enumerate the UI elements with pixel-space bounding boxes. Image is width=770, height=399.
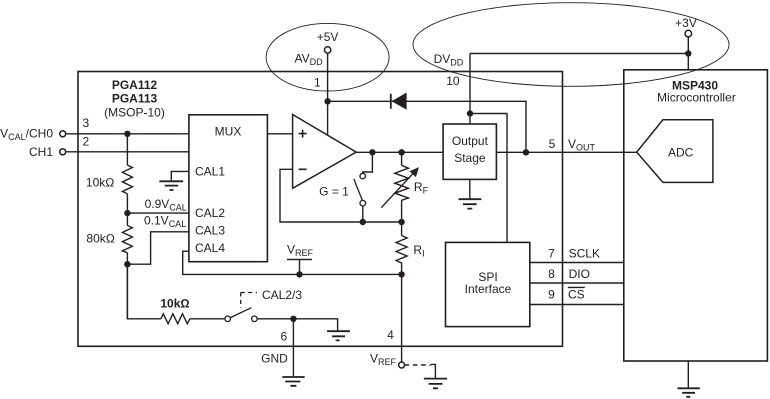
PGA112/PGA113 device boundary box bbox=[78, 72, 563, 347]
svg-text:10kΩ: 10kΩ bbox=[160, 297, 189, 311]
VOUT net label bbox=[568, 137, 596, 153]
svg-text:80kΩ: 80kΩ bbox=[86, 232, 115, 246]
svg-text:2: 2 bbox=[82, 135, 89, 149]
switch G=1 (top contact) bbox=[360, 173, 366, 179]
svg-text:Microcontroller: Microcontroller bbox=[657, 90, 736, 104]
pin 6 label bbox=[280, 329, 287, 343]
MSP430 title bbox=[672, 79, 718, 93]
GND pin label bbox=[261, 352, 288, 366]
SCLK net label bbox=[569, 246, 600, 260]
resistor 10k (top divider) bbox=[122, 165, 132, 194]
CS net label with overline bbox=[568, 287, 585, 301]
CH1 input terminal bbox=[29, 145, 66, 159]
PGA113 title bbox=[112, 91, 158, 105]
svg-text:PGA112: PGA112 bbox=[112, 78, 158, 92]
svg-text:MUX: MUX bbox=[215, 125, 242, 139]
wire pin2 CH1 to MUX bbox=[66, 151, 189, 153]
node CAL3 junction dot bbox=[124, 261, 130, 267]
diode D1 (cathode bar) bbox=[390, 94, 392, 109]
node VREF stub junction dot bbox=[296, 271, 302, 277]
wire op-amp - input feedback loop bbox=[280, 169, 402, 222]
svg-text:Stage: Stage bbox=[454, 151, 486, 165]
MSP430 boundary box bbox=[624, 70, 768, 361]
Output Stage block bbox=[443, 124, 496, 179]
wire VREF down to pin 4 bbox=[401, 274, 403, 362]
CAL2 pin label bbox=[195, 206, 225, 220]
svg-text:VREF: VREF bbox=[370, 352, 397, 368]
wire +3V vertical into MSP430 bbox=[687, 37, 689, 70]
svg-text:G = 1: G = 1 bbox=[319, 184, 349, 198]
node VOUT junction dot bbox=[523, 149, 529, 155]
svg-text:Output: Output bbox=[452, 134, 489, 148]
wire MUX output to op-amp + input bbox=[267, 133, 292, 135]
svg-text:Interface: Interface bbox=[465, 282, 512, 296]
wire op-amp output bbox=[356, 151, 443, 153]
VCAL/CH0 input terminal bbox=[0, 127, 66, 143]
node output/RF junction dot bbox=[398, 149, 404, 155]
+3V supply terminal bbox=[675, 16, 697, 37]
svg-text:GND: GND bbox=[261, 352, 288, 366]
pin 10 label bbox=[446, 74, 460, 88]
CAL1 pin label bbox=[195, 165, 225, 179]
PGA112 title bbox=[112, 78, 158, 92]
svg-text:9: 9 bbox=[548, 287, 555, 301]
VREF pin terminal bbox=[370, 352, 405, 369]
ADC block (pentagon) bbox=[637, 120, 713, 183]
wire CAL4 to VREF line bbox=[183, 251, 402, 274]
DVDD net label bbox=[434, 52, 464, 67]
svg-text:CAL1: CAL1 bbox=[195, 165, 225, 179]
ground (Output Stage) bbox=[459, 199, 482, 208]
svg-text:SCLK: SCLK bbox=[569, 246, 600, 260]
svg-text:3: 3 bbox=[82, 116, 89, 130]
svg-text:CAL4: CAL4 bbox=[195, 241, 225, 255]
node RF/feedback junction dot bbox=[398, 219, 404, 225]
ground (GND pin) bbox=[282, 377, 304, 386]
svg-text:0.9VCAL: 0.9VCAL bbox=[145, 197, 187, 213]
svg-text:CS: CS bbox=[568, 287, 585, 301]
wire dashed VREF to ground bbox=[405, 364, 436, 378]
10k ohm value label bbox=[86, 176, 115, 190]
pin 9 label bbox=[548, 287, 555, 301]
switch CAL2/3 (blade) bbox=[230, 308, 251, 318]
pin 7 label bbox=[548, 246, 555, 260]
node output/switch junction dot bbox=[369, 149, 375, 155]
wire switch bottom to feedback line bbox=[362, 206, 364, 222]
0.1VCAL net label bbox=[144, 214, 186, 230]
pin 8 label bbox=[548, 267, 555, 281]
VREF net label (middle) bbox=[287, 243, 314, 259]
node GND junction dot bbox=[290, 316, 296, 322]
node CH0 junction dot bbox=[124, 131, 130, 137]
node AVDD junction dot bbox=[324, 98, 330, 104]
VREF label underline and stub bbox=[287, 260, 312, 275]
pin 1 label bbox=[314, 75, 321, 89]
wire +3V to DVDD horizontal bbox=[470, 53, 688, 55]
0.9VCAL net label bbox=[145, 197, 187, 213]
pin 4 label bbox=[387, 328, 394, 342]
ground (switch net) bbox=[327, 331, 350, 340]
svg-text:CH1: CH1 bbox=[29, 145, 53, 159]
svg-text:4: 4 bbox=[387, 328, 394, 342]
MUX block bbox=[189, 115, 268, 262]
RI value label bbox=[413, 243, 424, 259]
svg-text:0.1VCAL: 0.1VCAL bbox=[144, 214, 186, 230]
G = 1 label bbox=[319, 184, 349, 198]
node DVDD branch junction dot bbox=[467, 110, 473, 116]
SPI Interface block bbox=[446, 242, 530, 326]
pin 3 label bbox=[82, 116, 89, 130]
wire RI stubs bbox=[401, 222, 403, 274]
switch CAL2/3 (left contact) bbox=[225, 316, 231, 322]
op-amp U1 bbox=[293, 115, 357, 189]
AVDD net label bbox=[295, 52, 324, 67]
80k ohm value label bbox=[86, 232, 115, 246]
10k ohm value label (bold, calibration) bbox=[160, 297, 189, 311]
RF value label bbox=[414, 180, 429, 196]
bottom calibration chain: wire from CAL3 node down and right bbox=[127, 264, 160, 319]
wire DVDD branch to SPI interface bbox=[470, 114, 507, 243]
wire CAL1 to ground bbox=[171, 171, 189, 181]
wire CAL2 to MUX bbox=[127, 212, 188, 214]
CAL4 pin label bbox=[195, 241, 225, 255]
svg-text:VOUT: VOUT bbox=[568, 137, 596, 153]
CAL2/3 label bbox=[262, 288, 302, 302]
svg-text:10kΩ: 10kΩ bbox=[86, 176, 115, 190]
resistor 10k (calibration, horizontal) bbox=[161, 314, 190, 324]
CAL3 pin label bbox=[195, 224, 225, 238]
svg-text:RF: RF bbox=[414, 180, 429, 196]
svg-text:(MSOP-10): (MSOP-10) bbox=[104, 105, 165, 119]
node RI/VREF junction dot bbox=[398, 271, 404, 277]
resistor RI bbox=[396, 236, 407, 266]
svg-text:+5V: +5V bbox=[317, 30, 339, 44]
wire to G=1 switch top bbox=[363, 152, 373, 173]
svg-text:CAL2/3: CAL2/3 bbox=[262, 288, 302, 302]
wire CAL3 to MUX bbox=[127, 232, 188, 264]
wire DIO bbox=[530, 282, 624, 284]
resistor RF (variable feedback) bbox=[381, 165, 419, 207]
wire SCLK bbox=[530, 262, 624, 264]
svg-text:1: 1 bbox=[314, 75, 321, 89]
svg-text:VREF: VREF bbox=[287, 243, 314, 259]
svg-text:8: 8 bbox=[548, 267, 555, 281]
svg-text:10: 10 bbox=[446, 74, 460, 88]
svg-text:VCAL/CH0: VCAL/CH0 bbox=[0, 127, 53, 143]
wire DVDD vertical into Output Stage bbox=[469, 54, 471, 125]
svg-text:ADC: ADC bbox=[668, 145, 694, 159]
wire pin 6 to ground bbox=[292, 319, 294, 377]
wire MSP430 to ground bbox=[687, 361, 689, 388]
wire switch to ground stub bbox=[257, 319, 337, 331]
+5V supply terminal bbox=[317, 30, 339, 53]
node +3V branch junction dot bbox=[685, 50, 691, 56]
supply bubble ellipse around +3V/DVDD bbox=[413, 3, 729, 87]
pin 5 label bbox=[549, 137, 556, 151]
svg-text:CAL3: CAL3 bbox=[195, 224, 225, 238]
svg-text:RI: RI bbox=[413, 243, 424, 259]
pin 2 label bbox=[82, 135, 89, 149]
Microcontroller label bbox=[657, 90, 736, 104]
ground (VREF pin) bbox=[424, 379, 447, 389]
wire RF stubs bbox=[401, 152, 403, 222]
node switch/feedback junction dot bbox=[360, 219, 366, 225]
wire AVDD vertical from +5V terminal to op-amp top bbox=[327, 53, 329, 135]
switch G=1 (bottom contact) bbox=[360, 200, 366, 206]
svg-text:5: 5 bbox=[549, 137, 556, 151]
CAL2/3 control dashed lines bbox=[241, 293, 257, 309]
node CAL2 junction dot bbox=[124, 210, 130, 216]
ground (MSP430) bbox=[678, 388, 700, 397]
ground (CAL1) bbox=[159, 181, 183, 190]
svg-text:CAL2: CAL2 bbox=[195, 206, 225, 220]
svg-text:AVDD: AVDD bbox=[295, 52, 324, 67]
resistor 80k (bottom divider) bbox=[122, 226, 132, 253]
wire Output Stage to ground bbox=[469, 179, 471, 199]
switch CAL2/3 (right contact) bbox=[252, 316, 258, 322]
switch G=1 (blade) bbox=[354, 179, 363, 201]
wire resistor to switch bbox=[190, 318, 225, 320]
svg-text:+3V: +3V bbox=[675, 16, 697, 30]
wire pin3 CH0 to MUX bbox=[66, 133, 189, 135]
wire VOUT from Output Stage to ADC bbox=[496, 151, 636, 153]
wire diode net from AVDD node to VOUT node bbox=[328, 101, 526, 152]
supply bubble ellipse around +5V/AVDD bbox=[266, 23, 389, 91]
svg-text:7: 7 bbox=[548, 246, 555, 260]
svg-text:PGA113: PGA113 bbox=[112, 91, 158, 105]
wire left divider chain vertical bbox=[126, 134, 128, 319]
(MSOP-10) package label bbox=[104, 105, 165, 119]
svg-text:6: 6 bbox=[280, 329, 287, 343]
DIO net label bbox=[569, 267, 590, 281]
svg-text:DVDD: DVDD bbox=[434, 52, 464, 67]
svg-text:DIO: DIO bbox=[569, 267, 590, 281]
diode D1 (triangle) bbox=[392, 93, 407, 110]
wire CS bbox=[530, 304, 624, 306]
